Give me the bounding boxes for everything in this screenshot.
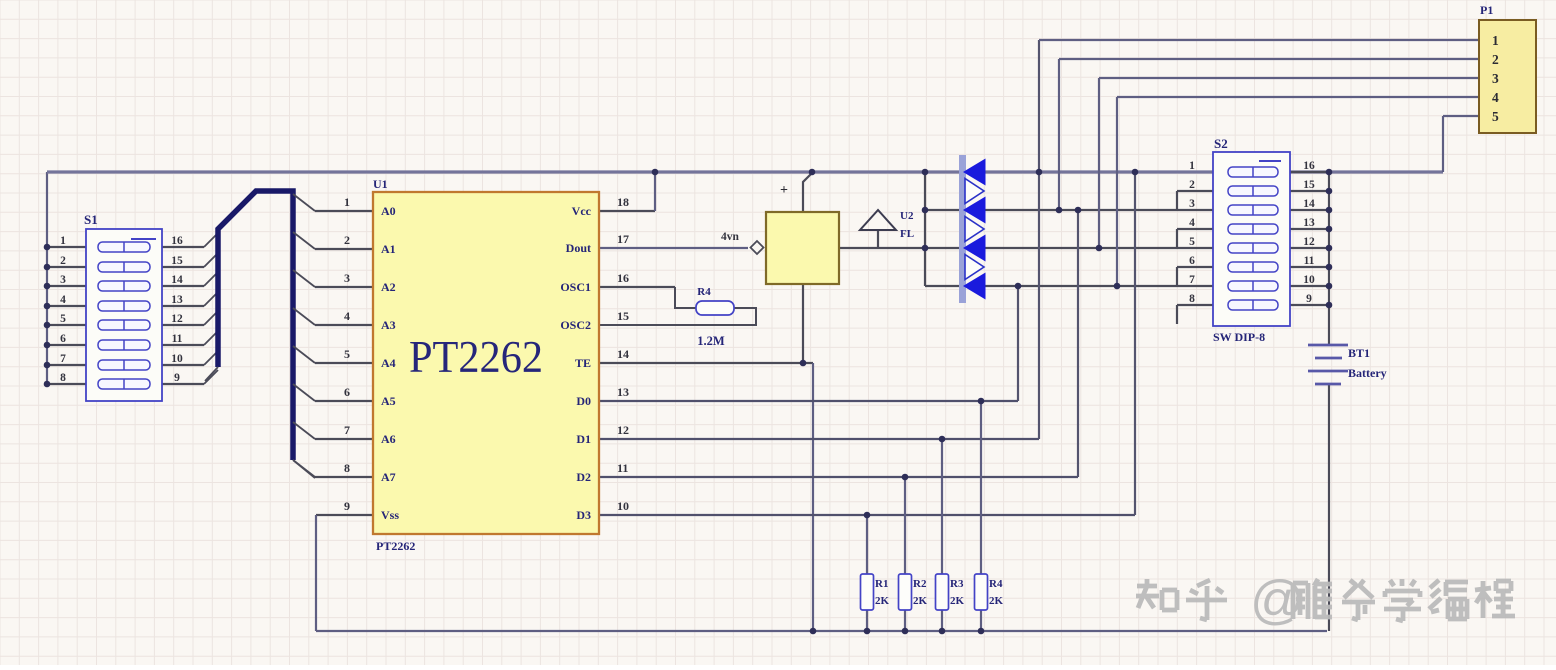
- svg-text:D1: D1: [576, 432, 591, 446]
- svg-text:OSC2: OSC2: [560, 318, 591, 332]
- svg-text:9: 9: [174, 372, 180, 384]
- svg-text:S2: S2: [1214, 136, 1228, 151]
- svg-text:10: 10: [1303, 274, 1315, 286]
- svg-text:12: 12: [171, 313, 183, 325]
- svg-text:17: 17: [617, 232, 629, 246]
- svg-text:2K: 2K: [875, 595, 890, 607]
- svg-text:1: 1: [60, 235, 66, 247]
- svg-text:3: 3: [344, 271, 350, 285]
- svg-text:1: 1: [1189, 160, 1195, 172]
- svg-text:2K: 2K: [950, 595, 965, 607]
- svg-text:12: 12: [617, 423, 629, 437]
- svg-text:6: 6: [344, 385, 350, 399]
- svg-text:4vn: 4vn: [721, 231, 740, 243]
- svg-text:13: 13: [1303, 217, 1315, 229]
- svg-text:6: 6: [60, 333, 66, 345]
- svg-text:R2: R2: [913, 578, 927, 590]
- svg-text:R4: R4: [989, 578, 1003, 590]
- svg-text:5: 5: [60, 313, 66, 325]
- svg-text:11: 11: [1304, 255, 1315, 267]
- svg-text:15: 15: [1303, 179, 1315, 191]
- svg-text:7: 7: [60, 353, 66, 365]
- svg-text:3: 3: [1189, 198, 1195, 210]
- svg-text:Battery: Battery: [1348, 366, 1387, 380]
- svg-text:13: 13: [617, 385, 629, 399]
- svg-text:11: 11: [617, 461, 628, 475]
- svg-text:FL: FL: [900, 228, 914, 240]
- svg-text:R1: R1: [875, 578, 888, 590]
- svg-text:16: 16: [1303, 160, 1315, 172]
- svg-text:A3: A3: [381, 318, 396, 332]
- svg-text:5: 5: [1492, 109, 1499, 124]
- svg-text:3: 3: [60, 274, 66, 286]
- svg-text:2: 2: [60, 255, 66, 267]
- svg-text:SW DIP-8: SW DIP-8: [1213, 330, 1265, 344]
- svg-text:8: 8: [1189, 293, 1195, 305]
- svg-text:1: 1: [1492, 33, 1499, 48]
- svg-text:14: 14: [617, 347, 629, 361]
- svg-text:15: 15: [171, 255, 183, 267]
- svg-text:14: 14: [171, 274, 183, 286]
- svg-text:U1: U1: [373, 177, 388, 191]
- svg-text:D2: D2: [576, 470, 591, 484]
- svg-text:OSC1: OSC1: [560, 280, 591, 294]
- svg-text:10: 10: [171, 353, 183, 365]
- svg-text:4: 4: [344, 309, 350, 323]
- svg-text:8: 8: [60, 372, 66, 384]
- svg-text:D3: D3: [576, 508, 591, 522]
- svg-text:Vcc: Vcc: [572, 204, 592, 218]
- svg-text:16: 16: [171, 235, 183, 247]
- svg-text:4: 4: [1492, 90, 1499, 105]
- svg-text:10: 10: [617, 499, 629, 513]
- svg-text:2: 2: [1492, 52, 1499, 67]
- svg-text:2: 2: [1189, 179, 1195, 191]
- svg-text:A2: A2: [381, 280, 396, 294]
- svg-text:D0: D0: [576, 394, 591, 408]
- svg-text:12: 12: [1303, 236, 1315, 248]
- svg-text:13: 13: [171, 294, 183, 306]
- svg-text:PT2262: PT2262: [376, 539, 415, 553]
- svg-text:2K: 2K: [913, 595, 928, 607]
- svg-text:6: 6: [1189, 255, 1195, 267]
- svg-text:8: 8: [344, 461, 350, 475]
- svg-text:16: 16: [617, 271, 629, 285]
- svg-text:A4: A4: [381, 356, 396, 370]
- svg-text:9: 9: [1306, 293, 1312, 305]
- svg-text:3: 3: [1492, 71, 1499, 86]
- svg-text:4: 4: [1189, 217, 1195, 229]
- svg-text:A1: A1: [381, 242, 396, 256]
- svg-text:TE: TE: [575, 356, 591, 370]
- svg-text:7: 7: [344, 423, 350, 437]
- svg-text:Dout: Dout: [566, 241, 591, 255]
- svg-text:A5: A5: [381, 394, 396, 408]
- svg-text:5: 5: [344, 347, 350, 361]
- svg-text:S1: S1: [84, 212, 98, 227]
- svg-text:Vss: Vss: [381, 508, 399, 522]
- svg-text:A7: A7: [381, 470, 396, 484]
- svg-text:U2: U2: [900, 210, 914, 222]
- svg-text:5: 5: [1189, 236, 1195, 248]
- svg-text:15: 15: [617, 309, 629, 323]
- svg-text:BT1: BT1: [1348, 346, 1370, 360]
- svg-text:R3: R3: [950, 578, 964, 590]
- svg-text:11: 11: [172, 333, 183, 345]
- svg-text:4: 4: [60, 294, 66, 306]
- svg-text:2K: 2K: [989, 595, 1004, 607]
- svg-text:1: 1: [344, 195, 350, 209]
- svg-text:+: +: [780, 183, 788, 198]
- svg-text:1.2M: 1.2M: [697, 334, 725, 348]
- svg-text:R4: R4: [697, 286, 711, 298]
- svg-text:9: 9: [344, 499, 350, 513]
- svg-text:P1: P1: [1480, 3, 1493, 17]
- svg-text:PT2262: PT2262: [409, 332, 543, 382]
- svg-text:14: 14: [1303, 198, 1315, 210]
- svg-text:18: 18: [617, 195, 629, 209]
- svg-text:2: 2: [344, 233, 350, 247]
- svg-text:7: 7: [1189, 274, 1195, 286]
- svg-text:A6: A6: [381, 432, 396, 446]
- svg-text:A0: A0: [381, 204, 396, 218]
